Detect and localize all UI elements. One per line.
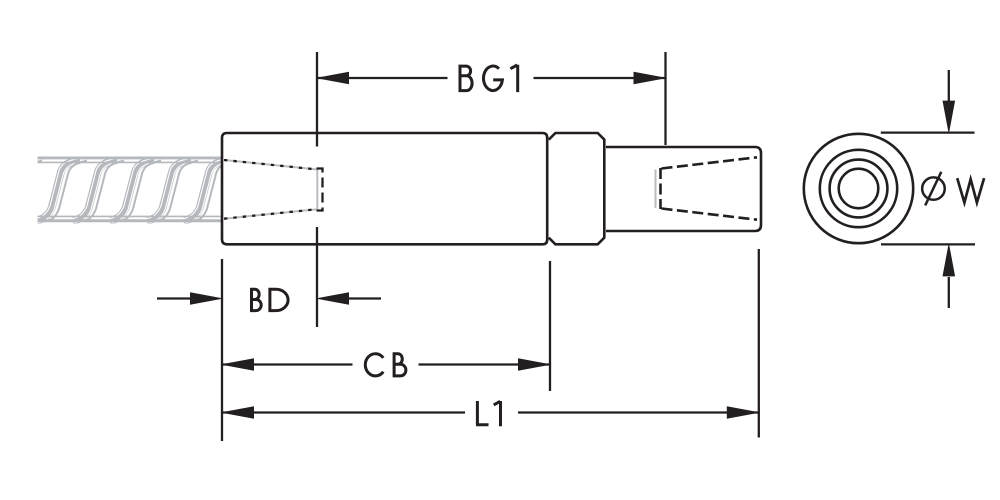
BG1 right extension line — [664, 52, 666, 145]
BG1 dimension line — [317, 77, 448, 79]
BD left leader — [157, 297, 191, 299]
rebar longitudinal ribs top — [37, 158, 223, 221]
coupler mid collar — [549, 133, 605, 244]
dimension BG1 — [317, 52, 666, 147]
BG1 label — [459, 65, 518, 92]
dimension W vertical — [881, 70, 975, 308]
CB right extension line — [549, 261, 551, 391]
BD left arrow — [190, 292, 224, 305]
W top arrow — [943, 101, 956, 135]
L1 left arrow — [220, 406, 254, 419]
W top arrow stem — [948, 70, 950, 103]
BD right arrow — [315, 292, 349, 305]
W bottom arrow — [943, 243, 956, 277]
BG1 left extension line — [316, 52, 318, 147]
BG1 left arrow — [315, 72, 349, 85]
rebar longitudinal ribs bottom — [37, 219, 223, 222]
BD left extension line (shared CB L1) — [221, 259, 223, 441]
left taper hidden dashed — [224, 160, 323, 219]
CB dimension line — [222, 363, 353, 365]
BD right extension line — [316, 227, 318, 327]
circle 2 — [820, 150, 897, 227]
W bottom extension line — [881, 243, 975, 245]
CB label — [365, 352, 406, 377]
W bottom arrow stem — [948, 277, 950, 308]
rebar transverse ribs — [0, 159, 272, 223]
BD label — [250, 288, 288, 312]
BG1 right arrow — [634, 72, 668, 85]
L1 right arrow — [727, 406, 761, 419]
W top extension line — [881, 131, 975, 133]
dimension L1 — [222, 249, 759, 438]
BD right leader — [348, 297, 381, 299]
L1 label — [476, 401, 501, 426]
L1 right extension line — [758, 249, 760, 438]
dimension CB — [222, 261, 550, 391]
end view circles — [804, 134, 913, 243]
diameter symbol — [922, 172, 945, 206]
coupler main body — [222, 133, 547, 244]
right taper hidden dashed — [661, 157, 758, 219]
circle 3 — [830, 160, 888, 218]
W label — [957, 178, 984, 203]
left taper gray (bar end) — [224, 160, 317, 219]
dimension BD — [157, 227, 381, 441]
inner circle — [839, 169, 879, 209]
coupler neck — [606, 147, 761, 231]
rebar — [0, 158, 272, 223]
CB right arrow — [518, 358, 552, 371]
L1 dimension line — [222, 411, 465, 413]
outer circle — [804, 134, 913, 243]
CB left arrow — [220, 358, 254, 371]
right taper gray line — [655, 170, 657, 209]
